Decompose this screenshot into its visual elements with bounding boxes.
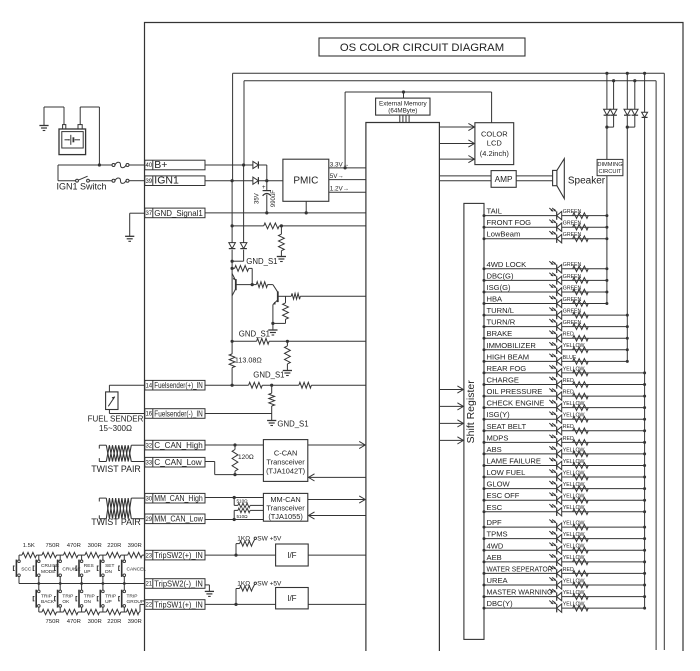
wire C-CAN TX to MCU — [308, 441, 366, 448]
node sense1 divider — [280, 224, 283, 227]
indicator row ESC OFF (YELLOW) — [483, 491, 647, 504]
svg-text:TripSW2(+)_IN: TripSW2(+)_IN — [154, 551, 203, 560]
svg-text:SEAT BELT: SEAT BELT — [487, 422, 527, 431]
svg-text:TURN/R: TURN/R — [487, 318, 516, 327]
resistor R6 to MCU — [286, 293, 366, 299]
wire GND_Signal1 to ground — [130, 213, 145, 236]
svg-text:15~300Ω: 15~300Ω — [99, 424, 132, 433]
indicator row LOW FUEL (YELLOW) — [483, 468, 647, 481]
svg-text:14: 14 — [145, 383, 152, 389]
node term bottom — [233, 473, 236, 476]
wire GND_Signal1 internal — [205, 212, 366, 214]
Shift Register U5 — [464, 203, 484, 639]
svg-text:RES: RES — [84, 563, 94, 569]
svg-text:LOW FUEL: LOW FUEL — [487, 468, 526, 477]
resistor 1K pullup 2 — [236, 580, 282, 604]
svg-text:470R: 470R — [67, 543, 81, 549]
wire IGN1 feed — [58, 180, 145, 182]
node IGN1 rail tap — [231, 179, 234, 182]
switch CRUISE MODE — [33, 555, 59, 583]
indicator row GLOW (YELLOW) — [483, 480, 647, 493]
resistor R14 510ohm — [234, 498, 263, 508]
node common tap — [102, 582, 105, 585]
node led rail 2 join — [626, 126, 629, 129]
svg-text:CHARGE: CHARGE — [487, 376, 520, 385]
wire SR data 3 — [439, 420, 464, 427]
resistor R4 base-base — [252, 282, 278, 293]
svg-text:RED: RED — [563, 332, 574, 338]
indicator row ESC (YELLOW) — [483, 503, 647, 516]
pin 22 TripSW1(+)_IN — [145, 600, 205, 610]
switch TRIP ON — [76, 584, 95, 613]
wire audio bus AMP-speaker — [516, 176, 552, 181]
main board outline — [145, 23, 684, 652]
wire LCD data 3 — [439, 156, 475, 163]
resistor R11 — [299, 382, 312, 388]
svg-text:21: 21 — [145, 582, 152, 588]
wire Fuelsender(+) internal — [205, 384, 366, 386]
svg-text:OIL PRESSURE: OIL PRESSURE — [487, 387, 543, 396]
wire led rail 1 — [606, 127, 608, 303]
svg-text:TWIST PAIR: TWIST PAIR — [91, 517, 141, 527]
pin 32 C_CAN_High — [145, 440, 205, 450]
component FUEL SENDER — [88, 392, 144, 433]
svg-text:REAR FOG: REAR FOG — [487, 364, 527, 373]
svg-text:ON: ON — [84, 599, 92, 605]
wire B+ internal — [205, 165, 267, 181]
svg-text:DBC(Y): DBC(Y) — [487, 599, 514, 608]
svg-text:C_CAN_High: C_CAN_High — [154, 441, 203, 450]
indicator row 4WD LOCK (GREEN) — [483, 260, 609, 273]
svg-text:35V: 35V — [254, 193, 260, 204]
resistor R9 113.08ohm — [229, 341, 262, 385]
node pullup1 tap — [234, 554, 237, 557]
svg-text:BRAKE: BRAKE — [487, 329, 513, 338]
svg-text:1KΩ: 1KΩ — [237, 536, 250, 543]
wire B+ to IGN switch — [57, 165, 59, 181]
resistor 470R (row2) — [64, 609, 79, 614]
svg-text:37: 37 — [145, 211, 152, 217]
wire rail B down — [232, 165, 244, 261]
resistor R8 to GND_S1 — [285, 341, 291, 370]
wire MM-CAN TX to MCU — [308, 496, 366, 503]
svg-text:DIMMING: DIMMING — [597, 162, 622, 168]
svg-text:PMIC: PMIC — [293, 176, 318, 187]
wire battery negative to ground — [44, 107, 64, 126]
wire Fuelsender(-) internal — [205, 413, 272, 415]
node base feed — [231, 267, 234, 270]
wire memory bus — [400, 115, 409, 122]
svg-text:C_CAN_Low: C_CAN_Low — [154, 458, 201, 467]
wire TripSW2(+) to I/F — [205, 554, 276, 556]
resistor 750R (row1) — [42, 552, 57, 557]
indicator row HBA (GREEN) — [483, 295, 609, 308]
switch TRIP UP — [97, 584, 116, 613]
indicator row IMMOBILIZER (YELLOW) — [483, 341, 629, 354]
resistor R5 collector load — [273, 296, 289, 323]
svg-text:SW +5V: SW +5V — [257, 580, 282, 587]
pin 40 B+ — [145, 159, 205, 171]
svg-text:Fuelsender(-)_IN: Fuelsender(-)_IN — [154, 409, 203, 418]
wire led rail 2 — [626, 127, 628, 361]
wire MM_CAN_Low internal — [205, 519, 263, 521]
I/F box 1 — [276, 544, 309, 566]
svg-text:ISG(Y): ISG(Y) — [487, 410, 511, 419]
svg-text:HBA: HBA — [487, 295, 504, 304]
svg-text:MODE: MODE — [41, 569, 55, 575]
svg-text:UP: UP — [84, 569, 91, 575]
resistor R10 — [249, 382, 263, 388]
op-amp: PMIC U1 — [283, 159, 329, 201]
svg-text:RED: RED — [563, 436, 574, 442]
node sense1 left — [231, 224, 234, 227]
ground (GND_Signal1) — [125, 236, 134, 241]
wire SR data 1 — [439, 386, 464, 393]
wire SR data 4 — [439, 437, 464, 444]
AMP — [491, 171, 516, 188]
svg-text:32: 32 — [145, 443, 152, 449]
ground GND_S1 (Q2) — [239, 323, 278, 338]
wire trip common line — [19, 583, 145, 585]
diode D2 (IGN1) — [253, 177, 259, 184]
wire C_CAN_Low internal — [205, 462, 263, 475]
svg-text:Speaker: Speaker — [568, 176, 606, 187]
wire B+ feed — [58, 164, 145, 166]
wire 1.2V output — [329, 186, 366, 193]
svg-text:CRUISE: CRUISE — [41, 563, 59, 569]
svg-text:External Memory: External Memory — [379, 100, 427, 107]
resistor R3 base loop — [232, 266, 252, 285]
COLOR LCD — [475, 123, 514, 165]
resistor 220R (row2) — [106, 609, 121, 614]
switch SET DN — [97, 555, 114, 583]
wire I/F2 to MCU — [308, 603, 366, 605]
svg-text:IMMOBILIZER: IMMOBILIZER — [487, 341, 537, 350]
svg-text:CIRCUIT: CIRCUIT — [598, 169, 622, 175]
indicator row ABS (YELLOW) — [483, 445, 647, 458]
svg-text:CHECK ENGINE: CHECK ENGINE — [487, 399, 545, 408]
capacitor C1 35V 990uF — [254, 181, 277, 213]
wire SR data 2 — [439, 403, 464, 410]
pin 30 MM_CAN_High — [145, 493, 205, 503]
svg-text:510Ω: 510Ω — [237, 498, 249, 503]
node B+ rail tap — [242, 163, 245, 166]
svg-text:MASTER WARNING: MASTER WARNING — [487, 588, 553, 597]
svg-text:1KΩ: 1KΩ — [237, 581, 250, 588]
node rail tap 5 — [633, 79, 636, 82]
switch CANCEL — [119, 555, 147, 583]
wire fuel sender - — [109, 410, 144, 414]
resistor R1 — [264, 223, 280, 229]
indicator row LowBeam (GREEN) — [483, 230, 609, 243]
svg-text:ESC OFF: ESC OFF — [487, 491, 520, 500]
svg-text:IGN1 Switch: IGN1 Switch — [56, 182, 106, 192]
svg-text:TRIP: TRIP — [127, 593, 138, 599]
svg-text:LAME FAILURE: LAME FAILURE — [487, 456, 541, 465]
svg-text:990uF: 990uF — [271, 190, 277, 207]
svg-text:DN: DN — [105, 569, 112, 575]
indicator row WATER SEPERATOR (RED) — [483, 564, 647, 577]
External Memory — [376, 98, 430, 115]
indicator row MDPS (RED) — [483, 433, 647, 446]
wire IGN1 internal — [205, 180, 283, 182]
resistor 470R (row1) — [64, 552, 79, 557]
svg-text:WATER SEPERATOR: WATER SEPERATOR — [487, 564, 553, 573]
switch IGN1 — [76, 176, 90, 182]
wire IGN1 top rail — [233, 73, 665, 650]
wire 3.3V riser to memory/LCD feed — [345, 92, 492, 168]
svg-text:UP: UP — [105, 599, 112, 605]
resistor 750R (row2) — [42, 609, 57, 614]
transistor Q2 — [273, 291, 286, 323]
svg-text:510Ω: 510Ω — [237, 514, 249, 519]
svg-text:DBC(G): DBC(G) — [487, 271, 514, 280]
indicator row LAME FAILURE (YELLOW) — [483, 456, 647, 469]
node sense2 left — [231, 340, 234, 343]
indicator row OIL PRESSURE (RED) — [483, 387, 647, 400]
indicator row UREA (YELLOW) — [483, 576, 647, 589]
indicator row REAR FOG (YELLOW) — [483, 364, 647, 377]
I/F box 2 — [276, 588, 309, 609]
svg-text:GND_S1: GND_S1 — [253, 370, 284, 379]
pin 16 Fuelsender(-)_IN — [145, 409, 205, 419]
indicator row DBC(G) (GREEN) — [483, 271, 609, 284]
svg-text:120Ω: 120Ω — [238, 454, 254, 461]
wire PMIC ground stub — [305, 201, 307, 213]
indicator row CHARGE (RED) — [483, 376, 647, 389]
svg-text:220R: 220R — [107, 543, 121, 549]
resistor 1K pullup 1 — [236, 535, 282, 555]
resistor 300R (row1) — [85, 552, 100, 557]
switch SCC — [13, 555, 31, 583]
svg-text:I/F: I/F — [287, 551, 296, 560]
svg-text:RED: RED — [563, 424, 574, 430]
wire memory feed stub — [403, 92, 405, 98]
svg-text:AEB: AEB — [487, 553, 502, 562]
svg-text:TPMS: TPMS — [487, 530, 508, 539]
switch TRIP BACK — [33, 584, 55, 613]
node cap ground — [265, 211, 268, 214]
diode D8 — [627, 81, 638, 127]
svg-text:750R: 750R — [46, 543, 60, 549]
svg-text:TripSW1(+)_IN: TripSW1(+)_IN — [154, 600, 203, 609]
svg-text:ISG(G): ISG(G) — [487, 283, 512, 292]
svg-text:RED: RED — [563, 389, 574, 395]
svg-text:(64MByte): (64MByte) — [388, 108, 417, 115]
node led rail 1 join — [605, 126, 608, 129]
node sense2 divider — [286, 340, 289, 343]
resistor R12 — [269, 385, 275, 413]
C-CAN transceiver U2 — [263, 440, 307, 482]
wire rail A down — [231, 181, 233, 342]
svg-text:+: + — [262, 185, 266, 191]
svg-text:ABS: ABS — [487, 445, 502, 454]
svg-text:300R: 300R — [88, 619, 102, 625]
svg-text:4WD LOCK: 4WD LOCK — [487, 260, 527, 269]
pin 23 TripSW2(+)_IN — [145, 550, 205, 560]
node memory feed — [402, 90, 405, 93]
svg-text:23: 23 — [145, 553, 152, 559]
svg-text:C-CAN: C-CAN — [274, 448, 297, 457]
svg-text:220R: 220R — [107, 619, 121, 625]
MCU U4 — [366, 123, 440, 652]
wire LCD data 2 — [439, 140, 475, 147]
switch RES UP — [76, 555, 94, 583]
pin 14 Fuelsender(+)_IN — [145, 380, 205, 390]
svg-text:B+: B+ — [154, 159, 167, 171]
indicator row BRAKE (RED) — [483, 329, 629, 342]
svg-text:I/F: I/F — [287, 594, 296, 603]
node common tap — [59, 582, 62, 585]
resistor 390R (row1) — [128, 552, 143, 557]
svg-text:FUEL SENDER: FUEL SENDER — [88, 414, 144, 423]
svg-text:COLOR: COLOR — [481, 130, 508, 139]
svg-text:IGN1: IGN1 — [154, 175, 179, 187]
resistor R13 120ohm — [232, 445, 254, 475]
switch CRUISE — [55, 555, 81, 583]
svg-text:ESC: ESC — [487, 503, 503, 512]
resistor R7 — [257, 338, 270, 344]
pin 37 GND_Signal1 — [145, 208, 205, 218]
ground GND_S1 (R8) — [253, 370, 292, 379]
svg-text:MM_CAN_High: MM_CAN_High — [154, 494, 203, 503]
diode D6 — [607, 81, 617, 127]
resistor 220R (row1) — [106, 552, 121, 557]
wire TripSW1(+) to I/F — [205, 603, 276, 605]
wire 3.3V output — [329, 161, 366, 168]
svg-text:113.08Ω: 113.08Ω — [235, 356, 262, 365]
svg-text:(4.2inch): (4.2inch) — [480, 149, 510, 158]
indicator row TPMS (YELLOW) — [483, 530, 647, 543]
pin 29 MM_CAN_Low — [145, 514, 205, 524]
svg-text:TAIL: TAIL — [487, 207, 502, 216]
indicator row DPF (YELLOW) — [483, 518, 647, 531]
svg-text:HIGH BEAM: HIGH BEAM — [487, 352, 530, 361]
node rail tap 1 — [605, 72, 608, 75]
resistor R2 to GND_S1 — [279, 226, 285, 257]
indicator row DBC(Y) (YELLOW) — [483, 599, 647, 612]
svg-text:300R: 300R — [88, 543, 102, 549]
svg-text:BACK: BACK — [41, 599, 55, 605]
svg-text:4WD: 4WD — [487, 541, 504, 550]
indicator row CHECK ENGINE (YELLOW) — [483, 399, 647, 412]
node common tap — [80, 582, 83, 585]
indicator row TAIL (GREEN) — [483, 207, 609, 220]
svg-text:TRIP: TRIP — [105, 593, 116, 599]
svg-text:33: 33 — [145, 460, 152, 466]
node diode merge — [231, 260, 234, 263]
svg-text:1.5K: 1.5K — [23, 543, 35, 549]
node common tap — [37, 582, 40, 585]
switch TRIP OK — [55, 584, 74, 613]
title box — [319, 38, 525, 56]
resistor 300R (row2) — [85, 609, 100, 614]
wire sense line 2 — [232, 340, 366, 342]
svg-text:GLOW: GLOW — [487, 480, 511, 489]
diode D9 — [642, 73, 648, 608]
indicator row FRONT FOG (GREEN) — [483, 218, 609, 231]
svg-text:TWIST PAIR: TWIST PAIR — [91, 464, 141, 474]
svg-text:5V→: 5V→ — [330, 173, 344, 180]
wire B+ top rail — [244, 81, 656, 650]
node T1 base — [251, 283, 254, 286]
MM-CAN transceiver U3 — [263, 493, 307, 521]
pin 21 TripSW2(-)_IN — [145, 579, 205, 589]
svg-text:MDPS: MDPS — [487, 433, 509, 442]
svg-text:39: 39 — [145, 179, 152, 185]
diode D1 (B+) — [253, 161, 259, 168]
resistor 1.5K (row1) — [22, 552, 37, 557]
transistor Q1 — [232, 274, 252, 296]
ground GND_S1 (R2) — [246, 257, 286, 266]
ground (battery) — [39, 126, 48, 131]
svg-text:(TJA1055): (TJA1055) — [268, 512, 303, 521]
svg-text:Shift Register: Shift Register — [465, 380, 477, 444]
svg-text:(TJA1042T): (TJA1042T) — [266, 466, 305, 475]
svg-text:CANCEL: CANCEL — [127, 566, 147, 572]
node diode join — [265, 179, 268, 182]
pin 39 IGN1 — [145, 175, 205, 187]
indicator row SEAT BELT (RED) — [483, 422, 647, 435]
wire C-CAN RX from MCU — [308, 474, 366, 481]
speaker SP1 — [553, 159, 606, 199]
svg-text:GND_S1: GND_S1 — [239, 329, 270, 338]
svg-text:RED: RED — [563, 567, 574, 573]
indicator row TURN/L (GREEN) — [483, 306, 629, 319]
indicator row 4WD (YELLOW) — [483, 541, 647, 554]
node pullup2 tap — [234, 603, 237, 606]
wire sense line 1 — [232, 225, 366, 227]
node term top — [233, 443, 236, 446]
wire fuel sender + — [109, 385, 144, 392]
indicator row HIGH BEAM (BLUE) — [483, 352, 629, 365]
diode D4 — [240, 243, 247, 249]
wire trip chain 1 — [19, 554, 145, 556]
wire LCD data 1 — [439, 123, 475, 130]
node rail tap 2 — [626, 72, 629, 75]
svg-text:SET: SET — [105, 563, 114, 569]
svg-text:GND_S1: GND_S1 — [246, 257, 277, 266]
svg-text:40: 40 — [145, 163, 152, 169]
diode D5 — [604, 73, 611, 127]
svg-text:MM_CAN_Low: MM_CAN_Low — [154, 515, 203, 524]
svg-text:TripSW2(-)_IN: TripSW2(-)_IN — [154, 579, 203, 588]
node rail tap 3 — [643, 72, 646, 75]
indicator row TURN/R (GREEN) — [483, 318, 629, 331]
svg-text:RED: RED — [563, 378, 574, 384]
wire trip chain 2 — [39, 604, 145, 612]
wire MM_CAN_High internal — [205, 497, 263, 499]
wire I/F1 to MCU — [308, 554, 366, 556]
svg-text:SCC: SCC — [21, 566, 32, 572]
svg-text:1.2V→: 1.2V→ — [330, 186, 349, 193]
node MM low tap — [233, 518, 236, 521]
node PMIC ground — [305, 211, 308, 214]
svg-text:Transceiver: Transceiver — [266, 457, 305, 466]
node Q2 emitter gnd — [271, 322, 274, 325]
wire battery positive to B+ line — [80, 107, 99, 165]
pin 33 C_CAN_Low — [145, 457, 205, 467]
svg-text:470R: 470R — [67, 619, 81, 625]
diode D7 — [624, 73, 631, 127]
svg-text:Fuelsender(+)_IN: Fuelsender(+)_IN — [154, 381, 203, 390]
svg-text:390R: 390R — [128, 543, 142, 549]
indicator row ISG(G) (GREEN) — [483, 283, 609, 296]
twisted pair (C-CAN) — [91, 445, 145, 474]
diode D3 — [229, 243, 236, 249]
wire MM-CAN RX from MCU — [308, 512, 366, 519]
svg-text:30: 30 — [145, 496, 152, 502]
